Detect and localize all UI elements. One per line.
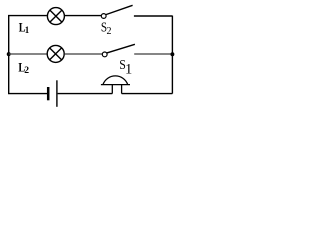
svg-text:2: 2 [107, 26, 112, 37]
lamp L2 [47, 45, 64, 62]
wire: middle left segment [9, 53, 47, 55]
switch S1 [102, 44, 135, 57]
wire: middle segment between L2 and S1 [64, 53, 102, 55]
wire: bottom right segment [122, 93, 173, 95]
switch S2 [101, 5, 132, 18]
node: left junction [7, 52, 11, 56]
bell: right leg [121, 85, 123, 94]
wire: middle right segment [134, 53, 172, 55]
wire: top right segment [134, 15, 173, 17]
node: right junction [170, 52, 174, 56]
wire: bottom left segment [8, 93, 47, 95]
lamp L1 [47, 8, 64, 25]
bell: dome [103, 76, 128, 85]
wire: right rail [171, 16, 173, 94]
battery: long thin plate (positive) [56, 80, 58, 107]
bell: left leg [111, 85, 113, 94]
bell: base line [101, 84, 130, 86]
svg-text:2: 2 [24, 65, 29, 76]
svg-text:1: 1 [125, 61, 132, 77]
wire: bottom segment between battery and bell [58, 93, 113, 95]
wire: left rail [8, 16, 10, 94]
battery: short thick plate (negative) [47, 87, 50, 100]
wire: top left segment [8, 15, 47, 17]
svg-text:1: 1 [25, 25, 30, 35]
wire: top middle segment [65, 15, 102, 17]
